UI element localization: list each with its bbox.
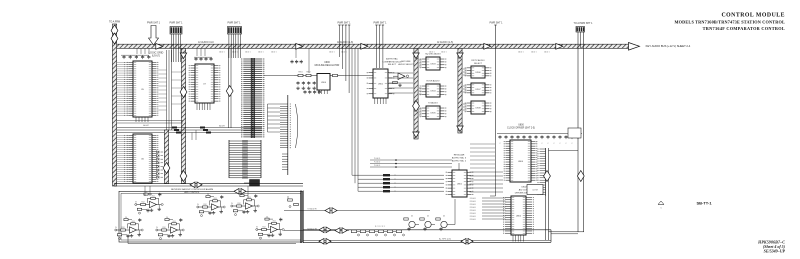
series resistors R901 R902 bbox=[294, 72, 317, 77]
svg-text:U900: U900 bbox=[324, 62, 330, 64]
svg-text:AUD 1: AUD 1 bbox=[518, 51, 523, 54]
svg-text:+: + bbox=[248, 206, 249, 208]
op-amp stage U102 bbox=[115, 217, 143, 240]
connector J4 single-row bbox=[280, 95, 298, 175]
label MIC/LINE AUDIO SELECT bbox=[398, 61, 414, 66]
svg-text:MODELS TRN7360B/TRN7473E STATI: MODELS TRN7360B/TRN7473E STATION CONTROL bbox=[674, 20, 785, 25]
svg-text:PWR SHT 1: PWR SHT 1 bbox=[228, 22, 242, 25]
label RX/TX AUDIO SELECT bbox=[471, 59, 485, 65]
vertical wire run triple bbox=[352, 48, 358, 191]
svg-text:AUD 1: AUD 1 bbox=[245, 51, 250, 54]
svg-text:AUD 1: AUD 1 bbox=[441, 51, 446, 54]
svg-text:SELECT: SELECT bbox=[474, 63, 483, 65]
svg-text:ADDR: ADDR bbox=[219, 125, 225, 128]
svg-text:J2 AUDIO (1-5): J2 AUDIO (1-5) bbox=[437, 41, 454, 44]
op-amp U902 bbox=[393, 73, 409, 87]
svg-text:U800: U800 bbox=[518, 125, 524, 127]
filter caps to ground bbox=[296, 81, 316, 90]
svg-text:U901: U901 bbox=[378, 84, 384, 86]
svg-text:+: + bbox=[273, 229, 274, 231]
label LOGIC GRID bbox=[149, 52, 164, 58]
svg-text:AUD 1: AUD 1 bbox=[329, 51, 334, 54]
svg-text:NETWORK BACKUP CONTROLLER ALAR: NETWORK BACKUP CONTROLLER ALARM bbox=[171, 188, 213, 191]
svg-text:A+ SPK (2-3): A+ SPK (2-3) bbox=[439, 237, 451, 240]
right closure wires bbox=[549, 151, 585, 234]
gate U907 bbox=[465, 83, 492, 95]
svg-text:R11: R11 bbox=[214, 198, 217, 200]
bus drop wires to U5 bbox=[137, 48, 149, 54]
svg-text:RX AUD: RX AUD bbox=[470, 212, 477, 215]
series resistors R801-R805 bbox=[358, 174, 444, 192]
gate U908 bbox=[465, 101, 492, 114]
svg-text:KEY AUDIO BUS (+12 V) SHEET 2-: KEY AUDIO BUS (+12 V) SHEET 2-4 bbox=[646, 44, 691, 48]
svg-text:AUD 1: AUD 1 bbox=[544, 51, 549, 54]
gate U903 bbox=[420, 57, 447, 70]
svg-text:R11: R11 bbox=[248, 197, 251, 199]
wires to U802 from amps bbox=[451, 199, 455, 225]
microprocessor U5 bbox=[117, 61, 158, 122]
svg-text:R11: R11 bbox=[273, 221, 276, 223]
label SQ DISC AUDIO bbox=[425, 53, 441, 56]
wire from logic to regulator bbox=[264, 75, 373, 77]
bus label KEY AUDIO BUS bbox=[198, 41, 691, 48]
relay K1 bbox=[244, 180, 260, 187]
svg-text:LOGIC GRID: LOGIC GRID bbox=[149, 52, 164, 55]
svg-text:REGULAR: REGULAR bbox=[454, 154, 465, 157]
drawing number block bbox=[757, 240, 786, 254]
svg-text:C4: C4 bbox=[166, 217, 168, 219]
svg-text:(U5-U7): (U5-U7) bbox=[152, 56, 160, 58]
shield trunk heavy line bbox=[301, 191, 303, 244]
svg-text:R902: R902 bbox=[306, 72, 310, 74]
svg-text:U800: U800 bbox=[518, 161, 524, 163]
connector P2 PWR SHT bbox=[170, 22, 184, 63]
svg-text:U801: U801 bbox=[457, 184, 463, 186]
svg-text:MIC/LINE REGULATOR: MIC/LINE REGULATOR bbox=[315, 64, 340, 67]
svg-text:R12: R12 bbox=[163, 227, 166, 229]
svg-text:IN: IN bbox=[135, 202, 137, 204]
clock driver U800 bbox=[504, 140, 538, 182]
connector J1 TO A FRM bbox=[109, 21, 120, 24]
label REGULAR ASTRO TAC bbox=[452, 154, 467, 163]
svg-text:RCVR AUDIO: RCVR AUDIO bbox=[427, 80, 440, 83]
svg-text:RX AUD: RX AUD bbox=[470, 203, 477, 206]
svg-text:U802: U802 bbox=[521, 187, 527, 189]
svg-text:R901: R901 bbox=[298, 72, 302, 74]
label U800 CLOCK DRIVER bbox=[507, 125, 535, 130]
caps above U7 bbox=[194, 57, 213, 61]
buffer U803 bbox=[527, 185, 543, 195]
svg-text:RX AUD: RX AUD bbox=[470, 197, 477, 200]
label ASTROTAC COMPAR MODULE SELECT bbox=[382, 58, 402, 67]
svg-text:+: + bbox=[132, 230, 133, 232]
svg-text:ASTRO TAC 3: ASTRO TAC 3 bbox=[452, 157, 467, 160]
output resistor R903 bbox=[330, 74, 344, 76]
sheet reference SB-TT-1 bbox=[696, 201, 712, 206]
svg-text:R12: R12 bbox=[238, 203, 241, 205]
power feed wires P4 bbox=[338, 22, 352, 94]
connector J3 dual-row bbox=[241, 58, 264, 138]
svg-text:IN: IN bbox=[256, 227, 258, 229]
svg-text:AUD 1: AUD 1 bbox=[232, 51, 237, 54]
bottom wire run bbox=[128, 186, 296, 244]
svg-text:U2: U2 bbox=[443, 216, 445, 218]
mode select IC U801 bbox=[446, 163, 474, 197]
main horizontal audio bus bbox=[114, 43, 640, 51]
svg-text:AUD 1: AUD 1 bbox=[531, 51, 536, 54]
input wires to U802 bbox=[470, 197, 506, 221]
svg-text:PWR SHT 1: PWR SHT 1 bbox=[490, 22, 504, 25]
svg-text:SE/5349–UP: SE/5349–UP bbox=[764, 248, 786, 253]
audio wires mid bbox=[284, 207, 430, 233]
svg-text:TX AUDIO: TX AUDIO bbox=[428, 102, 438, 105]
svg-text:R12: R12 bbox=[142, 202, 145, 204]
svg-text:RX AUD: RX AUD bbox=[470, 209, 477, 212]
svg-text:U2: U2 bbox=[427, 216, 429, 218]
svg-text:R12: R12 bbox=[204, 204, 207, 206]
vertical bus at logic grid right bbox=[180, 48, 187, 183]
svg-text:TO A PWR SHT 1: TO A PWR SHT 1 bbox=[574, 22, 594, 25]
svg-text:PL AUD: PL AUD bbox=[374, 161, 381, 164]
shielded pair bottom line bbox=[303, 230, 551, 244]
svg-text:U4 TM: U4 TM bbox=[532, 190, 538, 192]
tiny signal labels under bus bbox=[219, 51, 549, 54]
shielded box network backup bbox=[119, 189, 303, 243]
decoupling cap row bbox=[497, 134, 582, 146]
svg-text:C4: C4 bbox=[241, 193, 243, 195]
svg-text:IN: IN bbox=[156, 227, 158, 229]
signal rows with junctions bbox=[370, 157, 452, 168]
svg-text:AND CONTROL: AND CONTROL bbox=[184, 191, 200, 194]
connector P7 TO PWR SHT bbox=[574, 22, 594, 32]
wires C1 to J4 bbox=[268, 104, 281, 132]
op-amp stage U105 bbox=[256, 216, 284, 239]
svg-text:R11: R11 bbox=[173, 221, 176, 223]
left vertical bus bbox=[111, 24, 118, 186]
wire pair with break bbox=[226, 48, 233, 128]
svg-text:SELECT: SELECT bbox=[388, 64, 397, 66]
svg-text:RX/TX AUDIO: RX/TX AUDIO bbox=[471, 59, 485, 62]
svg-text:RX AUD: RX AUD bbox=[470, 218, 477, 221]
svg-text:U2: U2 bbox=[411, 216, 413, 218]
svg-text:U802: U802 bbox=[516, 216, 522, 218]
svg-text:C4: C4 bbox=[266, 216, 268, 218]
svg-text:RX AUD: RX AUD bbox=[470, 200, 477, 203]
svg-text:J2 AUDIO CLK: J2 AUDIO CLK bbox=[198, 41, 214, 44]
component box right bbox=[568, 128, 581, 138]
svg-text:ASTRO TAC 2: ASTRO TAC 2 bbox=[452, 160, 467, 163]
svg-text:AUDIO SELECT: AUDIO SELECT bbox=[398, 63, 414, 66]
wires U800 left bbox=[490, 140, 496, 196]
svg-text:TO A FRM: TO A FRM bbox=[109, 21, 120, 24]
title: CONTROL MODULE bbox=[674, 13, 785, 31]
svg-text:PWR SHT 1: PWR SHT 1 bbox=[338, 22, 352, 25]
svg-text:C4: C4 bbox=[207, 194, 209, 196]
power feed wires P5 bbox=[374, 22, 388, 69]
svg-text:SQ DISC AUDIO: SQ DISC AUDIO bbox=[425, 53, 441, 56]
op-amp stage U101 bbox=[135, 191, 163, 214]
svg-text:R C R C R C: R C R C R C bbox=[375, 226, 386, 228]
svg-text:MIC/LINE: MIC/LINE bbox=[401, 61, 411, 63]
svg-text:RX AUD HI: RX AUD HI bbox=[307, 227, 317, 230]
svg-text:U905: U905 bbox=[430, 113, 436, 115]
diode column D1-D8 bbox=[157, 151, 164, 179]
label U802 A/D CONV DRIVER bbox=[515, 187, 534, 195]
vertical bus mic/line select bbox=[413, 48, 420, 139]
op-amp stage U106 bbox=[197, 194, 225, 217]
label U900 regulator bbox=[315, 62, 340, 67]
select IC U901 bbox=[367, 69, 395, 104]
power feed wire P6 bbox=[490, 22, 504, 141]
small arrow symbol sheet ref bbox=[658, 201, 664, 210]
memory U6 bbox=[117, 134, 158, 183]
svg-text:AUD 1: AUD 1 bbox=[219, 51, 224, 54]
misc jumper above U802 bbox=[470, 144, 504, 192]
svg-text:CLOCK DRIVER (SHT 2-5): CLOCK DRIVER (SHT 2-5) bbox=[507, 128, 535, 130]
svg-text:PL AUD: PL AUD bbox=[374, 157, 381, 160]
svg-text:U903: U903 bbox=[430, 64, 436, 66]
svg-text:A0-A7: A0-A7 bbox=[143, 124, 149, 127]
logic grid bottom border bbox=[114, 182, 303, 188]
svg-text:R11: R11 bbox=[152, 196, 155, 198]
wires U901 to bus bbox=[389, 73, 413, 93]
gate U905 bbox=[420, 102, 447, 120]
svg-text:+: + bbox=[173, 230, 174, 232]
shielded pair top line bbox=[303, 227, 551, 233]
svg-text:AUD 1: AUD 1 bbox=[258, 51, 263, 54]
regulator IC U900 bbox=[317, 74, 330, 95]
ground caps row bbox=[303, 90, 321, 94]
svg-text:AUD 1: AUD 1 bbox=[271, 51, 276, 54]
gate U904 bbox=[420, 80, 447, 98]
svg-text:U907: U907 bbox=[475, 89, 481, 91]
op-amp stage U103 bbox=[156, 217, 184, 240]
svg-text:IN: IN bbox=[197, 204, 199, 206]
wire rows address bus bbox=[117, 124, 262, 140]
svg-text:ASTROTAC: ASTROTAC bbox=[386, 58, 398, 61]
bus drop wires to U7 bbox=[197, 48, 205, 56]
svg-text:PWR SHT 1: PWR SHT 1 bbox=[374, 22, 388, 25]
svg-text:PWR SHT 1: PWR SHT 1 bbox=[147, 22, 161, 25]
right vertical wires from P7 bbox=[578, 32, 584, 232]
svg-text:U900: U900 bbox=[321, 82, 327, 84]
svg-text:RX AUD: RX AUD bbox=[470, 206, 477, 209]
svg-text:TX AUD HI: TX AUD HI bbox=[307, 207, 317, 210]
parts cluster C7 R71 bbox=[288, 196, 299, 208]
latch U7 bbox=[189, 64, 221, 110]
svg-text:SB-TT-1: SB-TT-1 bbox=[696, 201, 712, 206]
connector J5 row bbox=[537, 148, 550, 240]
svg-text:CONTROL MODULE: CONTROL MODULE bbox=[721, 13, 785, 19]
RC ladder R201-R206 bbox=[351, 226, 404, 236]
connector P1 PWR SHT bbox=[147, 22, 161, 46]
svg-text:PL AUD: PL AUD bbox=[374, 164, 381, 167]
svg-text:RX AUD: RX AUD bbox=[470, 215, 477, 218]
vertical bus rx/tx select bbox=[457, 48, 463, 133]
svg-text:U906: U906 bbox=[475, 72, 481, 74]
svg-text:C4: C4 bbox=[125, 217, 127, 219]
svg-text:+: + bbox=[214, 207, 215, 209]
svg-text:U908: U908 bbox=[475, 108, 481, 110]
svg-text:C4: C4 bbox=[145, 191, 147, 193]
svg-text:R12: R12 bbox=[122, 227, 125, 229]
svg-text:TRN7364F COMPARATOR CONTROL: TRN7364F COMPARATOR CONTROL bbox=[703, 26, 785, 31]
svg-text:R12: R12 bbox=[263, 227, 266, 229]
buffer amps U201 U202 U203 bbox=[404, 216, 451, 232]
wire rows below U5 bbox=[117, 121, 183, 124]
input filter caps bbox=[290, 60, 302, 64]
op-amp stage U104 bbox=[231, 193, 259, 216]
wires U903-U905 to bus bbox=[419, 60, 467, 115]
svg-text:IN: IN bbox=[115, 227, 117, 229]
resistor ladder network bbox=[229, 140, 261, 179]
label NETWORK BACKUP CONTROLLER bbox=[171, 188, 213, 194]
gate U906 bbox=[465, 66, 492, 78]
connector P3 PWR SHT bbox=[228, 22, 242, 59]
svg-text:R11: R11 bbox=[132, 221, 135, 223]
svg-text:IN: IN bbox=[231, 203, 233, 205]
bus drop wires to regulator bbox=[296, 48, 309, 73]
svg-text:PWR SHT 1: PWR SHT 1 bbox=[170, 22, 184, 25]
A/D converter U802 bbox=[503, 196, 534, 242]
svg-text:U904: U904 bbox=[430, 91, 436, 93]
vertical bus segment lower bbox=[163, 130, 170, 184]
decoupling caps above U5 bbox=[121, 55, 150, 59]
wire run risers bbox=[159, 50, 182, 130]
svg-text:+: + bbox=[152, 204, 153, 206]
